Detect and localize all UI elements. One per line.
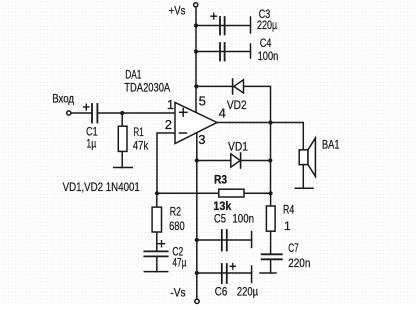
node output junction <box>268 120 272 124</box>
wire C4 branch <box>196 51 251 53</box>
svg-text:220µ: 220µ <box>257 18 277 32</box>
node R3 right junction <box>269 191 273 195</box>
wire C7 to ground <box>270 259 272 273</box>
op-amp U1 triangle <box>175 103 217 144</box>
speaker BA1 <box>299 150 308 165</box>
svg-text:220µ: 220µ <box>237 284 258 298</box>
svg-text:100n: 100n <box>258 49 279 63</box>
ground bar C3 <box>250 17 252 33</box>
capacitor C3 <box>220 17 225 35</box>
capacitor C7 <box>262 254 282 259</box>
svg-text:-Vs: -Vs <box>170 286 185 300</box>
svg-text:BA1: BA1 <box>322 137 340 151</box>
capacitor C2 <box>144 251 167 256</box>
svg-text:DA1: DA1 <box>125 67 141 81</box>
node C4 junction <box>194 49 198 53</box>
ground bar C5 <box>251 232 253 248</box>
svg-text:VD2: VD2 <box>227 98 247 112</box>
node VD1 left junction <box>195 158 199 162</box>
svg-text:R2: R2 <box>170 204 182 218</box>
wire C3 branch <box>196 25 251 27</box>
capacitor C4 <box>220 43 225 61</box>
wire input to C1 <box>71 112 92 114</box>
wire VD2 branch <box>196 86 271 122</box>
svg-text:4: 4 <box>219 106 226 121</box>
terminal -Vs <box>195 299 199 303</box>
wire output <box>216 123 303 150</box>
ground C2 <box>144 271 167 273</box>
capacitor C1 <box>92 104 97 123</box>
svg-text:C5: C5 <box>214 211 226 225</box>
svg-text:TDA2030A: TDA2030A <box>124 80 170 94</box>
terminal +Vs <box>194 3 198 7</box>
ground speaker <box>295 187 313 189</box>
svg-text:VD1,VD2 1N4001: VD1,VD2 1N4001 <box>63 180 140 194</box>
svg-text:100n: 100n <box>232 211 254 225</box>
svg-text:VD1: VD1 <box>228 140 248 154</box>
node R1 junction <box>120 111 124 115</box>
wire pin3 rail to -Vs <box>196 133 198 299</box>
svg-text:Вход: Вход <box>52 91 74 105</box>
plus C3 <box>211 13 216 19</box>
svg-text:R3: R3 <box>214 173 227 187</box>
svg-text:1µ: 1µ <box>86 137 96 151</box>
resistor R1 <box>118 126 127 151</box>
svg-text:R4: R4 <box>283 202 294 216</box>
wire C5 branch <box>197 239 252 241</box>
diode VD1 <box>231 153 241 168</box>
svg-text:3: 3 <box>198 132 205 147</box>
node VD2 junction <box>194 84 198 88</box>
wire speaker to ground <box>302 165 304 189</box>
resistor R4 leads <box>270 193 272 254</box>
wire R3 feedback <box>157 192 271 194</box>
svg-text:47µ: 47µ <box>172 256 186 270</box>
wire pin2 feedback <box>157 133 176 193</box>
wire +Vs rail top <box>195 7 197 113</box>
ground R1 <box>114 167 133 169</box>
wire C1 to pin 1 <box>98 112 177 114</box>
resistor R2 <box>152 207 161 232</box>
node feedback left junction <box>155 191 159 195</box>
ground bar C6 <box>251 266 253 283</box>
svg-text:C7: C7 <box>288 241 299 255</box>
resistor R3 <box>219 189 244 197</box>
svg-text:1: 1 <box>284 219 291 233</box>
svg-text:+Vs: +Vs <box>169 4 186 18</box>
svg-text:680: 680 <box>169 219 185 233</box>
svg-text:R1: R1 <box>133 125 144 139</box>
wire C6 branch <box>197 272 252 274</box>
wire output node down to R4 <box>270 123 272 194</box>
svg-text:1: 1 <box>167 97 174 112</box>
node C6 junction <box>195 271 199 275</box>
resistor R2 leads <box>156 193 158 251</box>
terminal input <box>67 111 71 115</box>
resistor R1 leads <box>121 113 123 168</box>
plus C2 <box>158 241 164 247</box>
plus C1 <box>84 104 89 110</box>
ground bar C4 <box>250 44 252 58</box>
node C5 junction <box>195 238 199 242</box>
node C3 junction <box>194 23 198 27</box>
resistor R4 <box>266 206 275 231</box>
capacitor C6 <box>222 264 227 283</box>
ground C7 <box>260 272 276 274</box>
wire C2 to ground <box>156 256 158 271</box>
svg-text:C6: C6 <box>215 284 228 298</box>
plus C6 <box>230 264 235 270</box>
op-amp plus input sign <box>180 109 188 117</box>
node VD1 right junction <box>268 158 272 162</box>
svg-text:5: 5 <box>199 93 206 108</box>
svg-text:2: 2 <box>165 117 172 132</box>
wire VD1 branch <box>197 160 270 162</box>
diode VD2 <box>233 79 244 94</box>
svg-text:220n: 220n <box>288 256 310 270</box>
capacitor C5 <box>222 230 227 251</box>
op-amp minus input sign <box>180 132 187 134</box>
svg-text:47k: 47k <box>133 139 149 153</box>
